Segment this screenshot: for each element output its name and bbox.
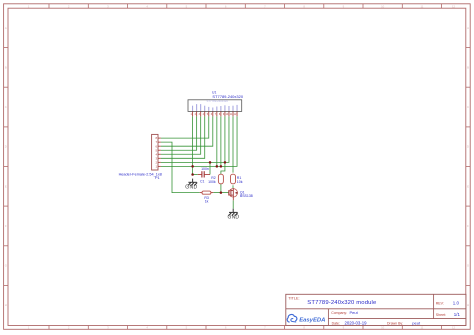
svg-text:10k: 10k bbox=[237, 180, 243, 184]
svg-text:C1: C1 bbox=[200, 180, 205, 184]
title block logo cell divider bbox=[327, 309, 329, 326]
ground GND1 bbox=[188, 179, 197, 186]
svg-text:C: C bbox=[467, 105, 469, 109]
wire VCC bus header pin2 to U1 pin10 bbox=[161, 116, 229, 162]
svg-text:A: A bbox=[5, 26, 7, 30]
svg-text:Company:: Company: bbox=[331, 311, 347, 315]
P1 pin numbers bbox=[155, 136, 157, 168]
svg-text:BSS138: BSS138 bbox=[240, 194, 253, 198]
svg-text:REV:: REV: bbox=[436, 301, 444, 305]
ground GND2 bbox=[229, 209, 238, 216]
U1 pin numbers bbox=[191, 113, 237, 116]
svg-text:Date:: Date: bbox=[332, 322, 340, 326]
svg-text:Drawn By:: Drawn By: bbox=[387, 322, 403, 326]
frame tick marks right edge bbox=[466, 48, 470, 286]
P1 pin stubs bbox=[158, 138, 161, 166]
svg-text:Sheet:: Sheet: bbox=[436, 313, 446, 317]
wire R1 bottom to Q1 drain bbox=[232, 185, 234, 188]
svg-text:10: 10 bbox=[381, 4, 385, 8]
svg-text:11: 11 bbox=[420, 326, 423, 330]
wire header pin6 to U1 pin6 bbox=[161, 116, 213, 146]
wire R3 right to Q1 gate bbox=[213, 192, 228, 194]
wire header pin3 to U1 pin4 bbox=[161, 116, 205, 158]
wire header pin5 to U1 pin2 bbox=[161, 116, 197, 150]
svg-text:H: H bbox=[467, 303, 469, 307]
wire C1 right riser to VCC bus bbox=[209, 162, 211, 174]
svg-text:G: G bbox=[5, 264, 7, 268]
wire U1 pin9 down to VCC bus bbox=[224, 116, 226, 162]
svg-text:11: 11 bbox=[420, 4, 423, 8]
svg-text:P1: P1 bbox=[155, 176, 160, 180]
wire U1 pin11 down to R1 top bbox=[232, 116, 234, 172]
wire header pin7 to R3 (gate net left) bbox=[161, 142, 200, 192]
svg-text:2020-03-19: 2020-03-19 bbox=[345, 321, 368, 326]
wire header pin8 to U1 pin5 bbox=[161, 116, 209, 138]
U1 pin stubs bbox=[193, 111, 237, 116]
wire R2 top jog to VCC bus bbox=[221, 162, 225, 174]
svg-text:D: D bbox=[5, 145, 7, 149]
EasyEDA logo curl bbox=[291, 319, 296, 322]
wire header pin4 to U1 pin3 bbox=[161, 116, 201, 154]
wire Q1 source to GND2 bbox=[232, 200, 234, 208]
junction U1-pin7/GND bus bbox=[216, 165, 219, 168]
svg-text:12: 12 bbox=[452, 4, 456, 8]
junction U1-pin1/GND bus bbox=[191, 165, 194, 168]
EasyEDA logo cloud bbox=[287, 314, 297, 322]
svg-text:ST7789-240x320 module: ST7789-240x320 module bbox=[307, 300, 377, 306]
title block outline bbox=[286, 294, 466, 325]
svg-text:F: F bbox=[5, 224, 7, 228]
title block row divider 1 bbox=[286, 308, 466, 310]
svg-text:EasyEDA: EasyEDA bbox=[299, 318, 325, 324]
capacitor C1 bbox=[198, 171, 210, 177]
transistor Q1 BSS138 bbox=[229, 188, 238, 200]
wire U1 pin7 down to GND bus bbox=[216, 116, 218, 166]
wire ground node to C1 left bbox=[193, 174, 198, 176]
U1 pin name bars bbox=[192, 104, 237, 111]
svg-text:E: E bbox=[5, 184, 7, 188]
svg-text:ST7789-240x320: ST7789-240x320 bbox=[212, 94, 243, 99]
svg-text:B: B bbox=[467, 65, 469, 69]
frame tick marks bottom edge bbox=[49, 326, 442, 330]
svg-text:12: 12 bbox=[452, 326, 456, 330]
resistor R1 bbox=[231, 174, 236, 184]
wire R2 bottom to gate node bbox=[220, 184, 222, 193]
svg-text:G: G bbox=[467, 264, 469, 268]
svg-text:1k: 1k bbox=[205, 199, 209, 203]
svg-text:C: C bbox=[5, 105, 7, 109]
junction ground node at C1 left bbox=[191, 173, 194, 176]
frame tick marks top edge bbox=[49, 4, 442, 8]
svg-text:GND: GND bbox=[185, 185, 197, 191]
svg-text:Peut: Peut bbox=[350, 310, 359, 315]
svg-text:GND: GND bbox=[228, 215, 240, 221]
title block right column divider bbox=[433, 294, 435, 318]
svg-text:F: F bbox=[467, 224, 469, 228]
frame tick marks left edge bbox=[4, 48, 8, 286]
svg-text:peut: peut bbox=[412, 321, 421, 326]
junction C1/VCC bus bbox=[209, 161, 212, 164]
svg-text:ST7789-240x320: ST7789-240x320 bbox=[206, 99, 228, 103]
wire U1 pin1 down to ground node bbox=[192, 116, 194, 174]
connector P1 body bbox=[152, 134, 158, 170]
junction gate node R2/R3 bbox=[220, 191, 223, 194]
svg-text:E: E bbox=[467, 184, 469, 188]
svg-text:100n: 100n bbox=[201, 167, 209, 171]
svg-text:B: B bbox=[5, 65, 7, 69]
svg-text:TITLE:: TITLE: bbox=[288, 296, 299, 300]
svg-text:1.0: 1.0 bbox=[453, 300, 460, 305]
junction U1-pin8/GND bus bbox=[220, 165, 223, 168]
title block row divider 2 bbox=[328, 318, 466, 320]
svg-text:D: D bbox=[467, 145, 469, 149]
svg-text:A: A bbox=[467, 26, 469, 30]
wire GND bus header pin1 to U1 pin12 bbox=[161, 116, 237, 166]
svg-text:H: H bbox=[5, 303, 7, 307]
svg-text:1/1: 1/1 bbox=[454, 312, 461, 317]
resistor R2 bbox=[218, 174, 223, 184]
resistor R3 bbox=[200, 191, 214, 194]
svg-text:100k: 100k bbox=[208, 180, 216, 184]
junction U1-pin9/VCC bus bbox=[224, 161, 227, 164]
wire U1 pin8 down to GND bus bbox=[220, 116, 222, 166]
svg-text:10: 10 bbox=[381, 326, 385, 330]
IC U1 body bbox=[188, 100, 242, 112]
